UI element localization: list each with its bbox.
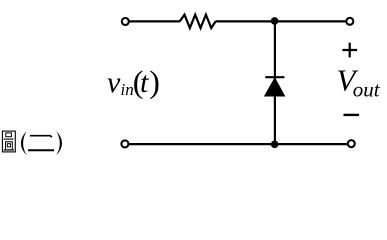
wire top-left segment <box>130 20 181 22</box>
node junction top <box>271 17 279 25</box>
caption char 圖 (drawn) <box>2 131 15 152</box>
plus sign <box>342 43 357 58</box>
terminal bottom-right <box>348 140 355 147</box>
svg-text:out: out <box>353 77 381 101</box>
wire bottom <box>129 143 347 145</box>
diode D cathode bar <box>265 76 284 78</box>
svg-text:in: in <box>121 80 134 99</box>
resistor R (zigzag) <box>180 15 216 28</box>
node junction bottom <box>271 141 279 149</box>
caption close paren <box>56 131 62 155</box>
svg-text:t: t <box>140 66 149 99</box>
terminal top-left <box>122 18 129 25</box>
svg-text:): ) <box>149 63 160 99</box>
terminal bottom-left <box>121 140 128 147</box>
terminal top-right <box>346 18 353 25</box>
caption open paren <box>21 131 27 155</box>
svg-text:v: v <box>107 66 121 99</box>
caption char 二 (drawn) <box>28 136 54 151</box>
minus sign <box>344 114 360 116</box>
wire top-right segment <box>216 20 346 22</box>
wire vertical branch <box>274 21 276 144</box>
diode D triangle <box>265 78 285 96</box>
